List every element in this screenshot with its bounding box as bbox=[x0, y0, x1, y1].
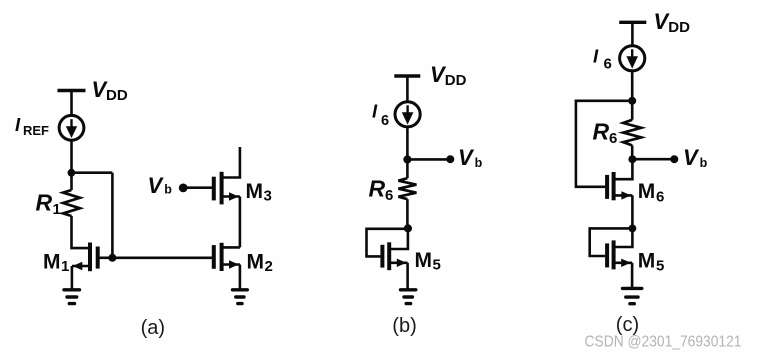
wire VDD to current source (b) bbox=[406, 76, 409, 101]
resistor R6 zigzag (b) bbox=[398, 178, 416, 199]
wire current source to node (b) bbox=[406, 128, 409, 159]
M5 diode-connect loop wire (c) bbox=[590, 228, 633, 256]
M1 source wire with arrow bbox=[72, 265, 90, 268]
wire down to M1 gate node (a) bbox=[111, 173, 114, 258]
svg-text:I: I bbox=[372, 101, 378, 122]
svg-text:I: I bbox=[593, 46, 599, 67]
M5 drain wire (c) bbox=[614, 228, 633, 247]
svg-text:1: 1 bbox=[53, 201, 61, 218]
svg-text:(b): (b) bbox=[392, 315, 416, 337]
svg-text:b: b bbox=[164, 182, 172, 196]
svg-text:b: b bbox=[475, 156, 483, 170]
current source I_6 circle (b) bbox=[395, 102, 420, 127]
wire node to R6 (c) bbox=[631, 101, 634, 120]
M5 source wire with arrow (b) bbox=[389, 261, 407, 264]
svg-text:5: 5 bbox=[433, 257, 441, 274]
svg-text:(c): (c) bbox=[616, 314, 639, 336]
svg-text:CSDN @2301_76930121: CSDN @2301_76930121 bbox=[585, 334, 742, 351]
M6 source down to M5 node (c) bbox=[631, 195, 634, 228]
VDD rail bar (c) bbox=[619, 21, 646, 24]
M5 source down to ground (c) bbox=[631, 263, 634, 288]
V_b node dot (c) bbox=[628, 155, 636, 163]
current source I_6 arrow (c) bbox=[626, 49, 638, 68]
M1 drain/gate node dot bbox=[108, 254, 116, 262]
current source I_REF arrow bbox=[66, 119, 77, 138]
wire node down to R6 (b) bbox=[406, 160, 409, 179]
wire node to V_b terminal (c) bbox=[632, 158, 674, 161]
transistor M6 channel bar (c) bbox=[612, 172, 616, 200]
ground under M1 bbox=[64, 290, 80, 304]
wire M3 source to M2 drain bbox=[239, 197, 242, 248]
VDD rail bar (a) bbox=[58, 89, 86, 92]
ground under M5 (c) bbox=[623, 288, 642, 303]
node dot between M6 and M5 (c) bbox=[629, 225, 637, 233]
wire node A to resistor R1 bbox=[70, 173, 73, 190]
svg-text:R: R bbox=[593, 119, 610, 145]
svg-text:DD: DD bbox=[106, 87, 128, 104]
svg-text:M: M bbox=[43, 251, 61, 274]
wire V_b to M3 gate bbox=[183, 186, 212, 189]
transistor M1 gate bar bbox=[96, 247, 100, 269]
current source I_REF circle bbox=[59, 115, 84, 140]
svg-text:6: 6 bbox=[604, 56, 612, 73]
wire M1 node to M2 gate bbox=[112, 256, 212, 259]
transistor M3 channel bar bbox=[220, 172, 224, 205]
M3 drain wire and stub up bbox=[222, 147, 240, 178]
node dot top of R6 (c) bbox=[628, 97, 636, 105]
svg-text:6: 6 bbox=[385, 187, 393, 204]
transistor M6 gate bar (c) bbox=[605, 175, 609, 199]
gate node dot (b) bbox=[404, 224, 412, 232]
current source I_6 circle (c) bbox=[620, 46, 645, 71]
resistor R6 zigzag (c) bbox=[623, 120, 641, 146]
node dot (b) bbox=[403, 155, 411, 163]
ground under M5 (b) bbox=[401, 290, 416, 304]
svg-text:6: 6 bbox=[656, 189, 664, 206]
wire VDD to current source (a) bbox=[70, 91, 73, 116]
svg-text:REF: REF bbox=[23, 123, 49, 138]
wire current source to node A (a) bbox=[70, 141, 73, 173]
V_b terminal dot (a) bbox=[179, 184, 188, 193]
svg-text:DD: DD bbox=[445, 72, 467, 89]
svg-text:M: M bbox=[247, 251, 265, 274]
M6 drain wire (c) bbox=[615, 159, 632, 179]
transistor M5 gate bar (c) bbox=[605, 243, 609, 267]
svg-text:V: V bbox=[458, 145, 475, 170]
svg-text:M: M bbox=[638, 249, 656, 272]
V_b terminal dot (b) bbox=[446, 155, 454, 163]
wire R6 to V_b node (c) bbox=[631, 145, 634, 159]
svg-text:V: V bbox=[683, 145, 700, 170]
svg-text:M: M bbox=[246, 180, 264, 203]
M2 drain wire bbox=[222, 246, 240, 249]
M2 source down to ground bbox=[239, 265, 242, 290]
feedback wire node to M6 gate (c) bbox=[576, 101, 632, 187]
wire R1 to M1 drain bbox=[72, 216, 89, 248]
M5 source down to ground (b) bbox=[406, 263, 409, 290]
M1 gate wire to node (a) bbox=[98, 256, 113, 259]
M5 diode-connect loop wire (b) bbox=[367, 229, 408, 257]
svg-text:b: b bbox=[700, 156, 708, 170]
svg-text:R: R bbox=[36, 190, 53, 216]
transistor M5 channel bar (b) bbox=[387, 242, 391, 270]
current source I_6 arrow (b) bbox=[402, 105, 414, 124]
wire current source to node (c) bbox=[631, 72, 634, 101]
svg-text:(a): (a) bbox=[141, 317, 165, 339]
wire VDD to current source (c) bbox=[631, 22, 634, 45]
svg-text:M: M bbox=[638, 180, 656, 203]
svg-text:2: 2 bbox=[265, 258, 273, 275]
V_b terminal dot (c) bbox=[670, 155, 678, 163]
ground under M2 bbox=[233, 290, 248, 304]
svg-text:1: 1 bbox=[61, 258, 69, 275]
svg-text:6: 6 bbox=[381, 113, 389, 129]
M5 drain wire (b) bbox=[389, 229, 408, 249]
transistor M2 gate bar bbox=[212, 245, 216, 269]
svg-text:I: I bbox=[15, 114, 21, 135]
M1 source wire down to ground bbox=[71, 266, 74, 290]
wire node to V_b terminal (b) bbox=[407, 158, 450, 161]
M6 source wire with arrow (c) bbox=[614, 194, 633, 197]
svg-text:V: V bbox=[148, 173, 165, 198]
transistor M5 gate bar (b) bbox=[380, 245, 384, 268]
transistor M5 channel bar (c) bbox=[612, 240, 616, 269]
M2 source wire with arrow bbox=[222, 263, 240, 266]
M5 source wire with arrow (c) bbox=[614, 261, 633, 264]
wire R6 to gate node (b) bbox=[406, 199, 409, 228]
svg-text:6: 6 bbox=[609, 130, 617, 147]
transistor M3 gate bar bbox=[212, 177, 216, 201]
svg-text:5: 5 bbox=[656, 257, 664, 274]
node A dot (a) bbox=[68, 169, 76, 177]
svg-text:DD: DD bbox=[668, 19, 690, 36]
svg-text:3: 3 bbox=[264, 187, 272, 204]
transistor M2 channel bar bbox=[220, 243, 224, 271]
wire node A to right (a) bbox=[71, 171, 112, 174]
M3 source wire with arrow bbox=[222, 195, 240, 198]
transistor M1 channel bar bbox=[88, 243, 92, 272]
VDD rail bar (b) bbox=[394, 74, 420, 77]
resistor R1 zigzag bbox=[63, 190, 80, 216]
svg-text:R: R bbox=[369, 175, 386, 201]
svg-text:M: M bbox=[415, 249, 433, 272]
